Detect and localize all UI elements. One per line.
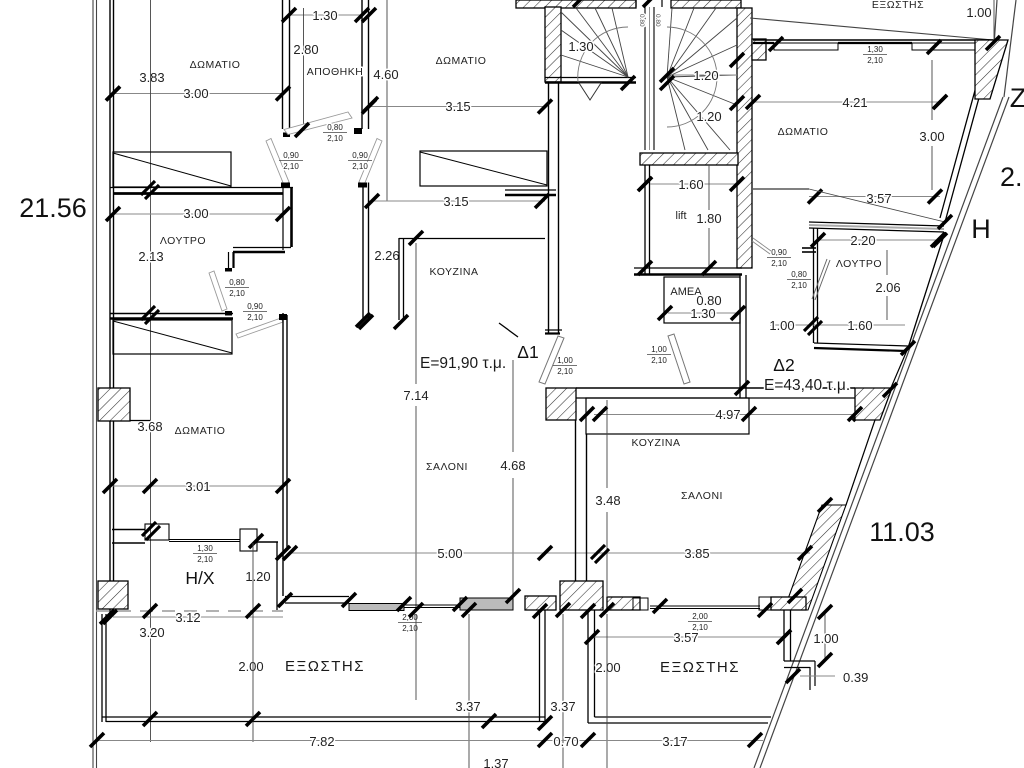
stair dim 1.20 (upper) <box>672 74 737 76</box>
wall from louro corner to col <box>890 348 908 390</box>
svg-text:1,00: 1,00 <box>557 356 573 365</box>
dim vline x=607 lower <box>606 614 608 768</box>
svg-text:1.30: 1.30 <box>568 39 593 54</box>
svg-text:ΕΞΩΣΤΗΣ: ΕΞΩΣΤΗΣ <box>285 658 365 675</box>
svg-text:3.68: 3.68 <box>137 419 162 434</box>
Δ1 apt label small arrow wall <box>499 323 518 337</box>
storage bottom jambs (black) <box>283 133 290 138</box>
stair treads upper-left fan (center C1) <box>561 12 628 77</box>
svg-text:5.00: 5.00 <box>437 546 462 561</box>
hatched column left 1 <box>98 388 130 421</box>
dim line 1.30 AMEA <box>668 312 737 314</box>
kitchen inner wall x=403 <box>398 238 400 320</box>
svg-text:7.14: 7.14 <box>403 388 428 403</box>
svg-text:3.57: 3.57 <box>673 630 698 645</box>
svg-text:3.15: 3.15 <box>445 99 470 114</box>
top-right room top wall <box>753 39 993 41</box>
H/X door ticks <box>142 522 160 540</box>
hatched column top-right <box>975 40 1008 99</box>
svg-text:2.20: 2.20 <box>850 233 875 248</box>
windows top-right <box>774 43 838 50</box>
svg-text:2,10: 2,10 <box>283 162 299 171</box>
dim line 4.21 <box>753 101 940 103</box>
svg-text:3.00: 3.00 <box>183 206 208 221</box>
door leaf louro right <box>812 259 827 299</box>
svg-text:E=91,90 τ.μ.: E=91,90 τ.μ. <box>420 355 506 372</box>
right wall of H/X / corridor wall x=283 <box>282 313 284 596</box>
svg-text:4.97: 4.97 <box>715 407 740 422</box>
window/closet rect top-center room <box>420 151 547 186</box>
dim line 3.01 <box>113 485 283 487</box>
salon front wall left part <box>285 596 349 598</box>
hatched front col 2 <box>607 597 640 610</box>
louro right room walls <box>813 228 815 343</box>
svg-text:ΣΑΛΟΝΙ: ΣΑΛΟΝΙ <box>681 490 723 502</box>
svg-text:ΚΟΥΖΙΝΑ: ΚΟΥΖΙΝΑ <box>430 266 479 278</box>
stair treads right fan (center C2) <box>667 8 672 77</box>
stair walk arcs <box>578 27 628 82</box>
Δ1 door leaf <box>539 336 564 384</box>
svg-text:2.00: 2.00 <box>238 659 263 674</box>
sliding door right balcony <box>650 605 760 607</box>
stair bottom band hatched (lower flight) <box>640 153 738 165</box>
svg-text:1.00: 1.00 <box>966 5 991 20</box>
svg-text:1.00: 1.00 <box>769 318 794 333</box>
hatched big block between balconies <box>560 581 603 610</box>
dim line 3.57 right balcony <box>592 636 784 638</box>
svg-text:Z: Z <box>1010 83 1024 113</box>
svg-text:1.20: 1.20 <box>693 68 718 83</box>
hatched column right at boundary <box>855 388 892 420</box>
svg-text:1.30: 1.30 <box>690 306 715 321</box>
svg-text:2,10: 2,10 <box>771 259 787 268</box>
louro bottom-right step <box>233 247 291 249</box>
door 0.90 right leaf <box>359 139 382 186</box>
storage door 0.80 leaf <box>284 112 352 135</box>
svg-text:2,10: 2,10 <box>651 356 667 365</box>
svg-text:0,90: 0,90 <box>352 151 368 160</box>
wall below window1 <box>110 187 293 189</box>
svg-text:0.80: 0.80 <box>654 14 661 27</box>
svg-text:4.60: 4.60 <box>373 67 398 82</box>
dim line 5.00 <box>290 552 600 554</box>
hatched column center (kitchen left) <box>546 388 576 420</box>
stair central divider <box>644 7 646 150</box>
svg-text:ΔΩΜΑΤΙΟ: ΔΩΜΑΤΙΟ <box>190 59 241 71</box>
svg-text:1,30: 1,30 <box>867 45 883 54</box>
building left wall (double) <box>109 0 111 614</box>
boundary hatched band mid-right <box>784 505 846 610</box>
svg-text:ΕΞΩΣΤΗΣ: ΕΞΩΣΤΗΣ <box>872 0 924 11</box>
svg-text:2,10: 2,10 <box>247 313 263 322</box>
door 0.90 left leaf <box>266 139 289 186</box>
svg-text:0.70: 0.70 <box>553 734 578 749</box>
kitchen left wall (double) x=363 <box>362 183 364 321</box>
svg-text:2,10: 2,10 <box>229 289 245 298</box>
svg-text:0.80: 0.80 <box>638 14 645 27</box>
svg-text:2.06: 2.06 <box>875 280 900 295</box>
center wall band <box>576 387 855 389</box>
svg-text:2,10: 2,10 <box>791 281 807 290</box>
louro right door jamb stubs <box>802 247 816 249</box>
AMEA room rect <box>664 277 740 323</box>
dim vlines bottom <box>252 543 254 742</box>
svg-text:1.20: 1.20 <box>245 569 270 584</box>
svg-text:0,80: 0,80 <box>791 270 807 279</box>
louro-right top wall w/ window <box>809 222 944 226</box>
stair top wall hatched <box>516 0 636 8</box>
svg-text:4.21: 4.21 <box>842 95 867 110</box>
right balcony walls <box>587 610 589 723</box>
front wall band A <box>349 604 404 611</box>
svg-text:3.85: 3.85 <box>684 546 709 561</box>
svg-text:ΔΩΜΑΤΙΟ: ΔΩΜΑΤΙΟ <box>436 55 487 67</box>
lift dim line 1.60 <box>650 183 737 185</box>
svg-text:2,10: 2,10 <box>197 555 213 564</box>
svg-text:21.56: 21.56 <box>19 193 87 223</box>
svg-text:3.12: 3.12 <box>175 610 200 625</box>
svg-text:2,10: 2,10 <box>557 367 573 376</box>
corridor right wall below lift <box>739 275 741 398</box>
wall between apartments (vertical x=575) <box>575 420 577 581</box>
svg-text:2.1: 2.1 <box>1000 162 1024 192</box>
wall H/X top right part <box>257 541 278 543</box>
dim 3.00 right <box>931 60 933 120</box>
wall below louro <box>110 313 233 315</box>
svg-text:2.00: 2.00 <box>595 660 620 675</box>
svg-text:ΛΟΥΤΡΟ: ΛΟΥΤΡΟ <box>836 258 882 270</box>
svg-text:ΚΟΥΖΙΝΑ: ΚΟΥΖΙΝΑ <box>632 437 681 449</box>
svg-text:3.48: 3.48 <box>595 493 620 508</box>
dim 1.00 right <box>824 612 826 660</box>
hall door leaf right apt <box>753 238 771 251</box>
stair right wall hatched (continues along lift) <box>737 8 752 268</box>
dim 0.39 <box>800 675 835 677</box>
svg-text:ΑΠΟΘΗΚΗ: ΑΠΟΘΗΚΗ <box>307 66 364 78</box>
stair left wall hatched <box>545 7 561 82</box>
svg-text:3.37: 3.37 <box>455 699 480 714</box>
corridor bottom stub <box>545 329 562 331</box>
dim line 3.85 <box>600 552 810 554</box>
dim 3.57 line + slanted leader <box>809 196 940 198</box>
lift vertical dim line <box>708 165 710 210</box>
window room1 left wall <box>113 152 231 187</box>
bottom dim line <box>97 740 763 742</box>
svg-text:0,90: 0,90 <box>247 302 263 311</box>
dim line 3.15 upper <box>369 106 545 108</box>
stub right of column1 <box>130 420 150 422</box>
front wall band B <box>460 598 513 610</box>
svg-text:1.60: 1.60 <box>847 318 872 333</box>
svg-text:3.01: 3.01 <box>185 479 210 494</box>
inner boundary wall line (col to hatch band) <box>846 420 875 505</box>
svg-text:3.00: 3.00 <box>919 129 944 144</box>
dim vline 3.48 <box>606 400 608 488</box>
white post <box>633 598 648 610</box>
louro top: dim line 3.00 <box>113 213 283 215</box>
svg-text:0,80: 0,80 <box>327 123 343 132</box>
svg-text:0,80: 0,80 <box>229 278 245 287</box>
top-right balcony slanted edge <box>750 18 993 40</box>
left balcony walls <box>101 614 103 722</box>
svg-text:2,00: 2,00 <box>692 612 708 621</box>
svg-text:ΔΩΜΑΤΙΟ: ΔΩΜΑΤΙΟ <box>175 425 226 437</box>
storage left wall (double) <box>282 0 284 129</box>
louro right east slanted wall <box>908 232 945 348</box>
svg-text:0,90: 0,90 <box>771 248 787 257</box>
svg-text:1.00: 1.00 <box>813 631 838 646</box>
site boundary top-right steep segment <box>1004 0 1016 97</box>
svg-text:2,10: 2,10 <box>352 162 368 171</box>
svg-text:11.03: 11.03 <box>869 517 935 547</box>
wall between room and corridor y=190 x505-556 <box>505 189 556 191</box>
stair bottom-left wall <box>545 77 636 79</box>
stair entry arrow <box>579 83 601 100</box>
lift left wall <box>644 165 646 275</box>
dim line 3.12 <box>113 616 283 618</box>
dim vline 4.60 <box>386 0 388 201</box>
right post + hatch <box>759 597 771 610</box>
louro door 0.80: jamb + leaf <box>225 268 232 272</box>
svg-text:Δ1: Δ1 <box>517 342 538 362</box>
dim line 1.60/1.00 <box>770 324 905 326</box>
svg-text:7.82: 7.82 <box>309 734 334 749</box>
dim 2.06 <box>886 250 888 275</box>
stair top door jambs <box>635 0 637 7</box>
svg-text:lift: lift <box>676 210 687 222</box>
ticks on balcony bottom walls <box>143 712 157 726</box>
dim vline 7.14 <box>415 243 417 384</box>
kitchen counter rect right apt <box>586 398 749 434</box>
storage right wall (double) <box>361 0 363 129</box>
louro right bottom wall <box>814 343 908 346</box>
svg-text:1.60: 1.60 <box>678 177 703 192</box>
svg-text:E=43,40 τ.μ.: E=43,40 τ.μ. <box>764 377 850 394</box>
dim line 3.00 (top room) <box>113 93 283 95</box>
H/X door left jamb block <box>145 524 169 540</box>
hatched front col 1 <box>525 596 556 610</box>
vertical dim line x=150 <box>150 0 152 742</box>
stair right notch <box>752 39 766 60</box>
svg-text:1.30: 1.30 <box>312 8 337 23</box>
lift bottom wall <box>634 267 742 269</box>
H/X east wall x=277 <box>276 542 278 610</box>
tick pairs at wall joins <box>141 181 159 199</box>
svg-text:2.13: 2.13 <box>138 249 163 264</box>
storage center dim vline <box>303 8 305 128</box>
kitchen wall bottom end ticks <box>359 315 373 329</box>
dim vline 4.68 <box>512 360 514 452</box>
dashed boundary line above balcony <box>96 610 283 612</box>
svg-text:1,00: 1,00 <box>651 345 667 354</box>
svg-text:1.80: 1.80 <box>696 211 721 226</box>
svg-text:3.83: 3.83 <box>139 70 164 85</box>
svg-text:2,10: 2,10 <box>867 56 883 65</box>
svg-text:ΕΞΩΣΤΗΣ: ΕΞΩΣΤΗΣ <box>660 659 740 676</box>
svg-text:0,90: 0,90 <box>283 151 299 160</box>
svg-text:ΔΩΜΑΤΙΟ: ΔΩΜΑΤΙΟ <box>778 126 829 138</box>
svg-text:H/X: H/X <box>185 568 215 588</box>
svg-text:Δ2: Δ2 <box>773 355 794 375</box>
kitchen top line <box>399 238 545 240</box>
svg-text:3.37: 3.37 <box>550 699 575 714</box>
sliding door left balcony <box>404 604 460 606</box>
right wall slanted top-right room <box>945 43 994 222</box>
H/X door 1.30 sliding lines <box>169 539 240 541</box>
svg-text:3.17: 3.17 <box>662 734 687 749</box>
dim line 4.97 <box>594 414 855 416</box>
svg-text:ΣΑΛΟΝΙ: ΣΑΛΟΝΙ <box>426 461 468 473</box>
svg-text:3.20: 3.20 <box>139 625 164 640</box>
svg-text:2,10: 2,10 <box>327 134 343 143</box>
svg-text:3.15: 3.15 <box>443 194 468 209</box>
svg-text:4.68: 4.68 <box>500 458 525 473</box>
site boundary left (double vertical line) <box>92 0 94 768</box>
wall H/X top <box>112 529 145 531</box>
hatched column left 2 <box>98 581 128 609</box>
svg-text:ΛΟΥΤΡΟ: ΛΟΥΤΡΟ <box>160 235 206 247</box>
svg-text:2.80: 2.80 <box>293 42 318 57</box>
svg-text:0.39: 0.39 <box>843 670 868 685</box>
window 2 left wall <box>113 320 232 354</box>
svg-text:H: H <box>971 214 991 244</box>
site boundary right slanted (double line from Z to bottom) <box>754 97 1003 768</box>
louro right wall band <box>282 187 284 250</box>
svg-text:1.37: 1.37 <box>483 756 508 768</box>
dim line 3.15 lower <box>369 200 545 202</box>
Δ2 corridor door leaf <box>668 334 690 384</box>
corridor left wall (double) <box>548 83 550 333</box>
svg-text:3.00: 3.00 <box>183 86 208 101</box>
dim line 1.30 storage <box>289 14 362 16</box>
svg-text:1.20: 1.20 <box>696 109 721 124</box>
bottom jambs of corridor doors <box>281 183 290 188</box>
svg-text:2.26: 2.26 <box>374 248 399 263</box>
dim line 2.20 <box>818 239 940 241</box>
assorted dimension ticks <box>106 87 120 101</box>
H/X door right jamb block <box>240 529 257 551</box>
svg-text:1,30: 1,30 <box>197 544 213 553</box>
